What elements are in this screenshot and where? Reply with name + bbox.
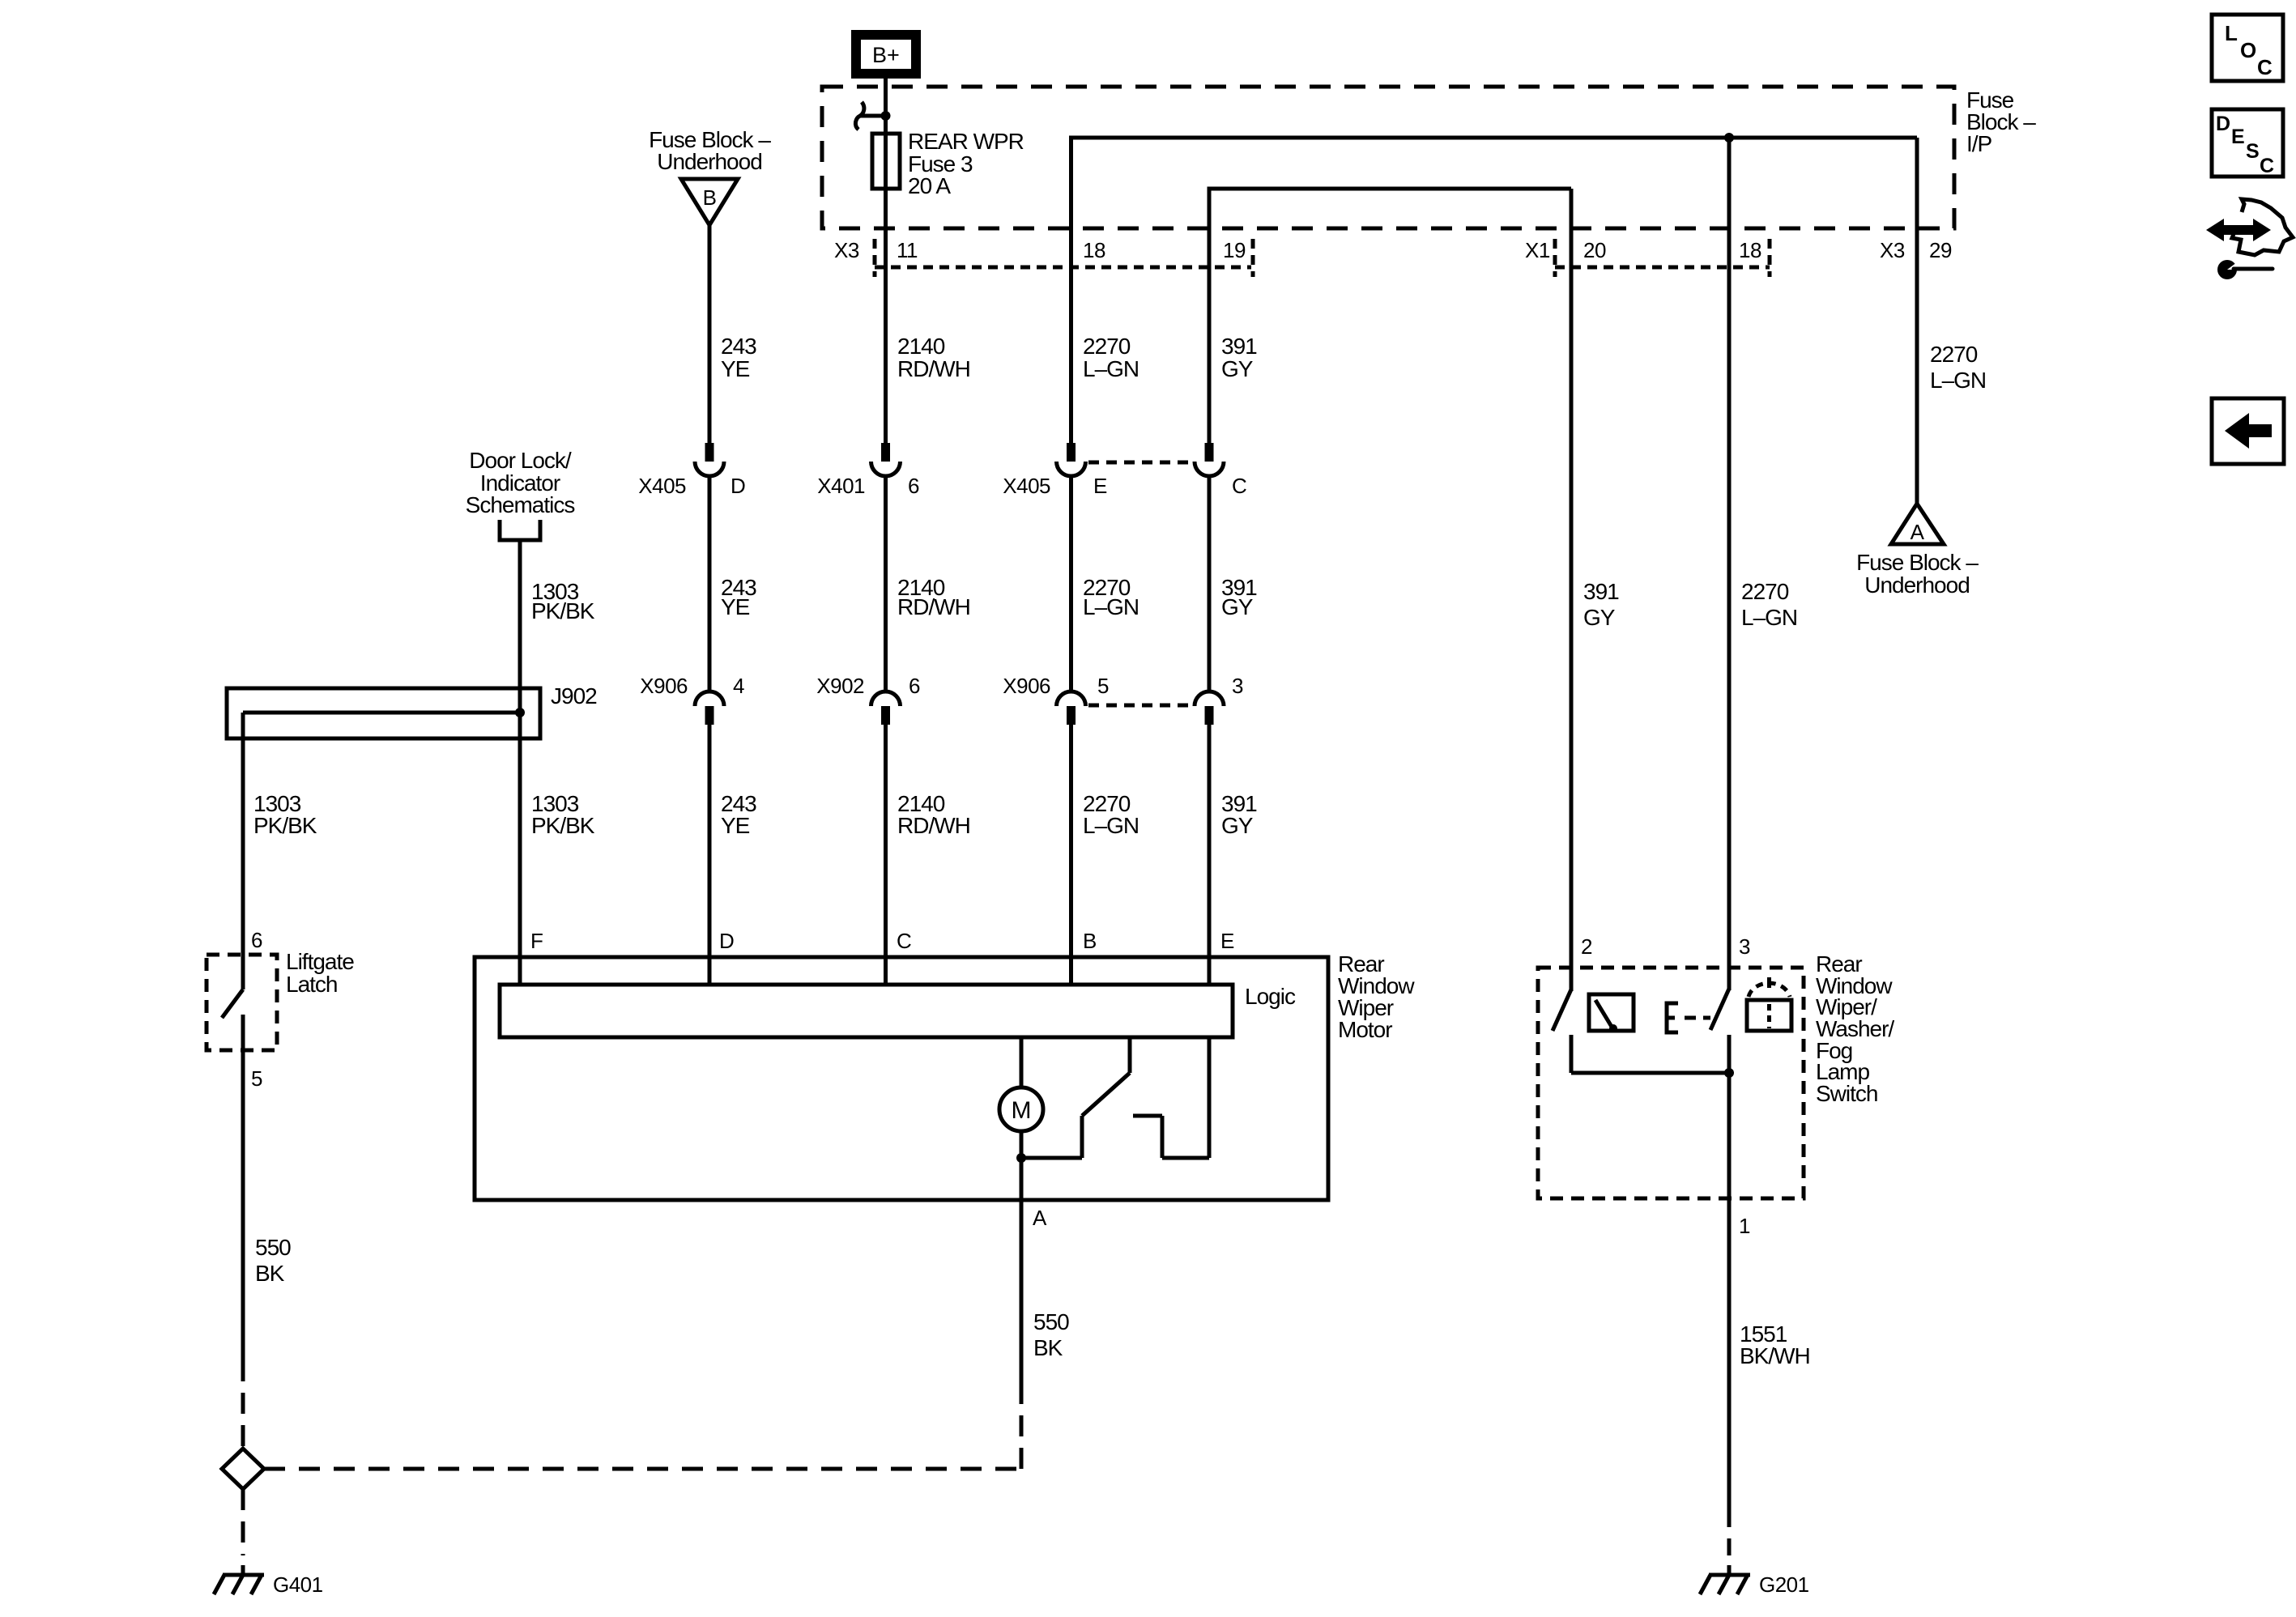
connector X3 dashed separators (873, 239, 877, 277)
svg-text:D: D (731, 474, 745, 498)
svg-text:M: M (1012, 1097, 1032, 1124)
svg-text:Liftgate: Liftgate (286, 949, 354, 974)
svg-text:BK/WH: BK/WH (1740, 1343, 1810, 1368)
svg-text:391: 391 (1583, 579, 1619, 604)
fuse REAR WPR Fuse 3 20 A (872, 134, 900, 189)
wire 391 GY top run (1209, 189, 1571, 443)
svg-text:B: B (1083, 929, 1097, 953)
svg-text:X3: X3 (834, 238, 859, 262)
svg-text:6: 6 (251, 928, 262, 952)
svg-text:YE: YE (721, 356, 750, 381)
svg-text:C: C (2257, 55, 2273, 79)
svg-text:3: 3 (1739, 934, 1750, 959)
svg-text:L–GN: L–GN (1930, 368, 1986, 393)
svg-text:5: 5 (1097, 674, 1109, 698)
svg-text:YE: YE (721, 594, 750, 619)
svg-text:C: C (897, 929, 911, 953)
svg-text:2270: 2270 (1083, 334, 1131, 359)
svg-text:RD/WH: RD/WH (897, 356, 970, 381)
ground G401 (214, 1565, 264, 1594)
svg-text:PK/BK: PK/BK (531, 598, 595, 623)
wire 2140 RD/WH mid (884, 476, 888, 691)
splice pack J902 (227, 688, 540, 738)
hot feed tap symbol (855, 102, 890, 130)
svg-text:D: D (2216, 113, 2230, 135)
svg-text:PK/BK: PK/BK (531, 813, 595, 838)
svg-text:GY: GY (1221, 594, 1254, 619)
wire 2140 RD/WH lower (884, 725, 888, 985)
wire 2270 L-GN lower (1069, 725, 1073, 985)
svg-text:X401: X401 (817, 474, 865, 498)
svg-text:2270: 2270 (1741, 579, 1789, 604)
svg-text:Underhood: Underhood (1864, 572, 1970, 598)
svg-text:G201: G201 (1759, 1572, 1809, 1597)
wire 550 BK (left) (241, 1050, 245, 1360)
wire 2270 L-GN top run (1071, 138, 1918, 443)
connector X405 pin E (1057, 443, 1086, 476)
svg-text:YE: YE (721, 813, 750, 838)
svg-text:D: D (719, 929, 734, 953)
wire 2270 L-GN mid (1069, 476, 1073, 691)
svg-text:X1: X1 (1525, 238, 1550, 262)
svg-text:G401: G401 (273, 1572, 323, 1597)
wire 1303 PK/BK left branch (241, 713, 245, 955)
svg-text:243: 243 (721, 334, 756, 359)
svg-text:550: 550 (1033, 1309, 1069, 1334)
svg-text:X405: X405 (638, 474, 686, 498)
svg-text:X906: X906 (1003, 674, 1050, 698)
rear window wiper/washer/fog lamp switch dashed box (1538, 968, 1804, 1198)
svg-text:2140: 2140 (897, 334, 945, 359)
svg-text:X405: X405 (1003, 474, 1050, 498)
svg-text:L–GN: L–GN (1083, 356, 1139, 381)
svg-text:6: 6 (909, 674, 920, 698)
connector X906 pin 3 (1195, 691, 1224, 725)
svg-text:Logic: Logic (1245, 984, 1296, 1009)
svg-text:BK: BK (255, 1261, 285, 1286)
svg-text:C: C (1232, 474, 1246, 498)
connector X906 pin 4 (695, 691, 724, 725)
connector X405 pin D (695, 443, 724, 476)
svg-text:E: E (2231, 126, 2245, 148)
motor M winding (999, 1037, 1043, 1200)
svg-text:Door Lock/: Door Lock/ (469, 448, 572, 473)
svg-text:REAR WPR: REAR WPR (908, 129, 1024, 154)
connector X906 pin 5 (1057, 691, 1086, 725)
icon DESC box (2212, 109, 2283, 177)
wire 550 BK (motor ground) (1020, 1200, 1024, 1391)
svg-text:1: 1 (1739, 1214, 1750, 1238)
svg-text:BK: BK (1033, 1335, 1063, 1360)
wire 243 YE from triangle B (708, 225, 712, 443)
svg-text:A: A (1910, 520, 1925, 544)
wire B+ feed (2140 RD/WH) (884, 79, 888, 443)
wire X3 pin 29 (2270 L-GN) (1915, 138, 1919, 504)
svg-text:391: 391 (1221, 334, 1257, 359)
dashed jumper between E and C (1088, 461, 1193, 465)
off-page triangle B (681, 179, 738, 225)
icon LOC box (2212, 15, 2283, 81)
svg-text:O: O (2240, 38, 2256, 62)
svg-text:X902: X902 (816, 674, 864, 698)
connector X1 dashed separators (1553, 239, 1557, 277)
svg-text:6: 6 (908, 474, 919, 498)
svg-text:J902: J902 (551, 683, 597, 709)
connector X401 pin 6 (871, 443, 901, 476)
ground G201 (1700, 1565, 1750, 1594)
wiper switch contact (pin 2) (1553, 989, 1729, 1073)
washer switch contact (pin 3) (1710, 989, 1734, 1198)
svg-text:PK/BK: PK/BK (253, 813, 317, 838)
liftgate latch dashed box (207, 955, 277, 1050)
svg-text:2: 2 (1581, 934, 1592, 959)
svg-text:Schematics: Schematics (466, 492, 575, 517)
svg-text:5: 5 (251, 1066, 262, 1091)
svg-text:X906: X906 (640, 674, 688, 698)
svg-text:B+: B+ (872, 43, 900, 67)
wire X1 pin 20 (391 GY) (1570, 189, 1574, 991)
svg-text:L: L (2225, 21, 2238, 45)
dashed splice run to motor ground wire (264, 1467, 1021, 1471)
washer icon (1747, 977, 1791, 1031)
svg-text:C: C (2260, 155, 2274, 177)
svg-text:A: A (1033, 1206, 1047, 1230)
dashed wire to G201 (1727, 1506, 1732, 1555)
wire 243 YE lower (708, 725, 712, 985)
bracket to Door Lock schematics (500, 520, 540, 540)
svg-text:GY: GY (1583, 605, 1616, 630)
junction on 2270 L-GN run (1724, 133, 1734, 143)
svg-text:L–GN: L–GN (1083, 813, 1139, 838)
svg-text:Switch: Switch (1816, 1081, 1877, 1106)
icon vehicle with wrench (2206, 199, 2293, 279)
svg-text:20: 20 (1583, 238, 1606, 262)
logic module bar (500, 985, 1233, 1037)
svg-text:19: 19 (1223, 238, 1246, 262)
svg-text:RD/WH: RD/WH (897, 813, 970, 838)
svg-text:Latch: Latch (286, 972, 338, 997)
rear window wiper motor box (475, 957, 1328, 1200)
dashed wire to splice (241, 1360, 245, 1449)
svg-text:Motor: Motor (1338, 1017, 1392, 1042)
wire 1551 BK/WH (1727, 1198, 1732, 1506)
connector X902 pin 6 (871, 691, 901, 725)
icon back arrow box (2212, 398, 2284, 464)
svg-text:Fuse Block –: Fuse Block – (1856, 550, 1979, 575)
wire 391 GY lower (1208, 725, 1212, 985)
svg-text:18: 18 (1739, 238, 1761, 262)
svg-text:Underhood: Underhood (657, 149, 762, 174)
power symbol B+ (851, 30, 921, 79)
liftgate latch switch (222, 955, 243, 1050)
connector X405 pin C (1195, 443, 1224, 476)
svg-text:18: 18 (1083, 238, 1105, 262)
wire 243 YE mid (708, 476, 712, 691)
svg-text:S: S (2246, 140, 2260, 163)
svg-text:F: F (530, 929, 543, 953)
fuse block I/P dashed box (822, 87, 1954, 228)
svg-text:GY: GY (1221, 813, 1254, 838)
off-page triangle A (1891, 504, 1944, 544)
wire 391 GY mid (1208, 476, 1212, 691)
svg-text:11: 11 (897, 238, 918, 262)
svg-text:L–GN: L–GN (1741, 605, 1797, 630)
svg-text:B: B (703, 185, 717, 210)
dashed jumper between 5 and 3 (1088, 704, 1193, 708)
wire X1 pin 18 (2270 L-GN) (1727, 138, 1732, 990)
splice diamond (222, 1449, 264, 1489)
svg-text:4: 4 (733, 674, 744, 698)
svg-text:E: E (1093, 474, 1107, 498)
wire 1303 PK/BK from door lock (518, 540, 522, 985)
svg-text:E: E (1220, 929, 1234, 953)
svg-text:29: 29 (1929, 238, 1952, 262)
svg-text:GY: GY (1221, 356, 1254, 381)
wiper icon (1589, 994, 1634, 1032)
svg-text:2270: 2270 (1930, 342, 1978, 367)
svg-text:L–GN: L–GN (1083, 594, 1139, 619)
svg-text:RD/WH: RD/WH (897, 594, 970, 619)
svg-text:20 A: 20 A (908, 173, 951, 198)
svg-text:550: 550 (255, 1235, 291, 1260)
svg-text:X3: X3 (1880, 238, 1905, 262)
svg-text:I/P: I/P (1966, 131, 1992, 156)
mechanical coupler E (1667, 1003, 1710, 1032)
motor internal park switch (1021, 1037, 1209, 1158)
svg-text:3: 3 (1232, 674, 1243, 698)
dashed wire splice to ground (241, 1489, 245, 1555)
